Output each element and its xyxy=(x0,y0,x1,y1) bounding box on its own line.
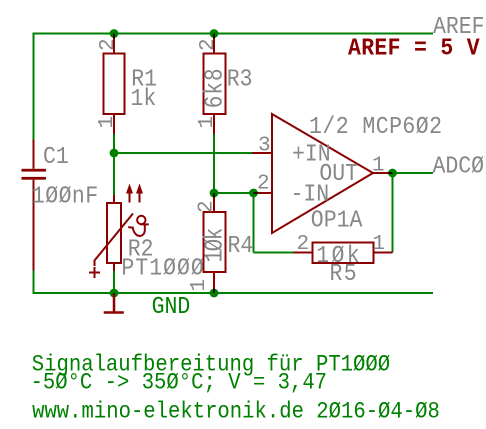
svg-text:2: 2 xyxy=(197,38,220,51)
junction overlap GND stem xyxy=(113,293,115,298)
junction overlap R4 top xyxy=(213,193,215,198)
resistor R1 pin 1 stub xyxy=(113,114,115,134)
thermistor R2 arrow 2 xyxy=(139,192,141,203)
svg-text:3: 3 xyxy=(258,135,271,158)
wire GND rail (bottom) xyxy=(33,292,434,294)
op-amp OUT pin stub xyxy=(373,172,393,174)
thermistor R2 bottom pin stub xyxy=(113,263,115,271)
svg-text:R3: R3 xyxy=(227,65,253,92)
svg-text:R4: R4 xyxy=(228,232,254,259)
resistor R3 body xyxy=(204,54,226,115)
svg-text:PT1ØØØ: PT1ØØØ xyxy=(121,254,204,281)
wire ADC0 net xyxy=(393,172,434,174)
wire left vertical lower (C1 to GND rail) xyxy=(33,271,35,295)
svg-text:OP1A: OP1A xyxy=(311,206,363,233)
thermistor R2 plus sign xyxy=(89,267,100,278)
svg-text:R5: R5 xyxy=(330,260,358,287)
svg-text:2: 2 xyxy=(257,173,270,196)
wire OUT down to R5 pin1 xyxy=(392,173,394,253)
resistor R3 pin 2 stub xyxy=(213,35,215,54)
junction R4/GND rail xyxy=(210,289,219,298)
junction overlap R4 bottom xyxy=(213,289,215,294)
wire +IN net xyxy=(114,152,252,154)
thermistor R2 diagonal end tick xyxy=(94,260,96,266)
svg-text:www.mino-elektronik.de 2Ø16-Ø4: www.mino-elektronik.de 2Ø16-Ø4-Ø8 xyxy=(32,399,440,425)
svg-text:1: 1 xyxy=(372,233,385,256)
junction R1/AREF rail xyxy=(110,29,119,38)
svg-text:2: 2 xyxy=(297,233,310,256)
svg-text:1: 1 xyxy=(196,116,219,129)
junction OUT node xyxy=(388,169,397,178)
wire feedback vertical xyxy=(253,193,255,253)
wire -IN net horizontal xyxy=(214,192,254,194)
svg-text:ADCØ: ADCØ xyxy=(433,152,485,179)
resistor R5 body xyxy=(313,243,374,264)
wire node to R2 top xyxy=(113,153,115,195)
junction R3/AREF rail xyxy=(210,29,219,38)
thermistor R2 top pin stub xyxy=(113,195,115,203)
capacitor C1 plate bottom xyxy=(22,177,46,180)
thermistor R2 theta symbol xyxy=(137,216,145,224)
svg-text:2: 2 xyxy=(97,38,120,51)
op-amp +IN pin stub xyxy=(252,152,272,154)
junction overlap R3 top xyxy=(213,34,215,39)
wire left vertical upper (to C1) xyxy=(33,33,35,140)
svg-text:2: 2 xyxy=(196,200,219,213)
resistor R4 pin 2 stub xyxy=(213,193,215,212)
junction -IN feedback xyxy=(249,189,258,198)
svg-text:1Øk: 1Øk xyxy=(201,228,231,263)
op-amp -IN pin stub xyxy=(254,192,273,194)
resistor R5 pin 2 stub xyxy=(294,252,313,254)
thermistor R2 body xyxy=(107,203,121,263)
junction overlap R1 top xyxy=(113,34,115,39)
svg-text:1: 1 xyxy=(372,155,385,178)
wire R3 pin1 down to -IN net xyxy=(213,134,215,193)
wire R1 pin1 to node +IN xyxy=(113,134,115,153)
svg-text:C1: C1 xyxy=(43,143,69,170)
resistor R1 pin 2 stub xyxy=(113,35,115,54)
thermistor R2 arrow 1 xyxy=(129,192,131,203)
capacitor C1 pin 1 (top) xyxy=(33,140,35,169)
junction R2/GND rail xyxy=(110,289,119,298)
svg-text:-5Ø°C -> 35Ø°C; V = 3,47: -5Ø°C -> 35Ø°C; V = 3,47 xyxy=(31,370,328,396)
resistor R4 pin 1 stub xyxy=(213,272,215,293)
svg-text:1k: 1k xyxy=(131,85,157,112)
junction overlap OUT xyxy=(388,172,393,174)
resistor R5 pin 1 stub xyxy=(373,252,393,254)
svg-text:1ØØnF: 1ØØnF xyxy=(32,182,99,209)
resistor R1 body xyxy=(104,54,125,115)
svg-text:-IN: -IN xyxy=(291,180,330,207)
wire R2 bottom to GND rail xyxy=(113,271,115,293)
wire AREF rail (top) xyxy=(33,33,434,35)
capacitor C1 pin 2 (bottom) xyxy=(33,180,35,271)
op-amp U1 triangle OP1A xyxy=(272,114,373,233)
ground symbol GND xyxy=(104,294,124,313)
junction overlap feedback xyxy=(254,192,259,194)
svg-text:1: 1 xyxy=(96,116,119,129)
resistor R3 pin 1 stub xyxy=(213,114,215,134)
svg-text:GND: GND xyxy=(152,293,191,320)
capacitor C1 plate top xyxy=(22,169,46,172)
junction node +IN divider xyxy=(110,149,119,158)
svg-text:AREF = 5 V: AREF = 5 V xyxy=(348,34,480,61)
resistor R4 body xyxy=(204,212,226,272)
wire feedback to R5 pin2 xyxy=(254,252,294,254)
junction node -IN divider xyxy=(210,189,219,198)
svg-text:1/2 MCP6Ø2: 1/2 MCP6Ø2 xyxy=(309,113,442,140)
thermistor R2 diagonal stroke xyxy=(95,214,134,261)
